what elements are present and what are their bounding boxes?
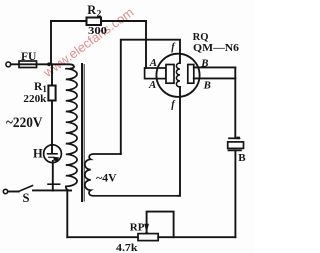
svg-text:f: f <box>171 42 176 53</box>
svg-text:QM—N6: QM—N6 <box>193 43 239 54</box>
svg-text:f: f <box>171 99 176 110</box>
svg-text:B: B <box>203 80 211 92</box>
svg-text:A: A <box>149 57 157 69</box>
svg-text:~220V: ~220V <box>6 115 43 131</box>
svg-text:B: B <box>238 152 246 164</box>
svg-text:A: A <box>148 79 156 91</box>
svg-text:H: H <box>33 147 43 161</box>
svg-text:300: 300 <box>88 26 107 37</box>
svg-text:FU: FU <box>21 51 37 63</box>
svg-text:B: B <box>200 58 208 70</box>
svg-text:4.7k: 4.7k <box>116 242 138 253</box>
svg-text:RQ: RQ <box>193 32 209 43</box>
svg-text:R2: R2 <box>87 3 101 19</box>
svg-text:~4V: ~4V <box>96 173 117 185</box>
svg-text:220k: 220k <box>23 93 47 105</box>
svg-text:S: S <box>23 191 30 205</box>
